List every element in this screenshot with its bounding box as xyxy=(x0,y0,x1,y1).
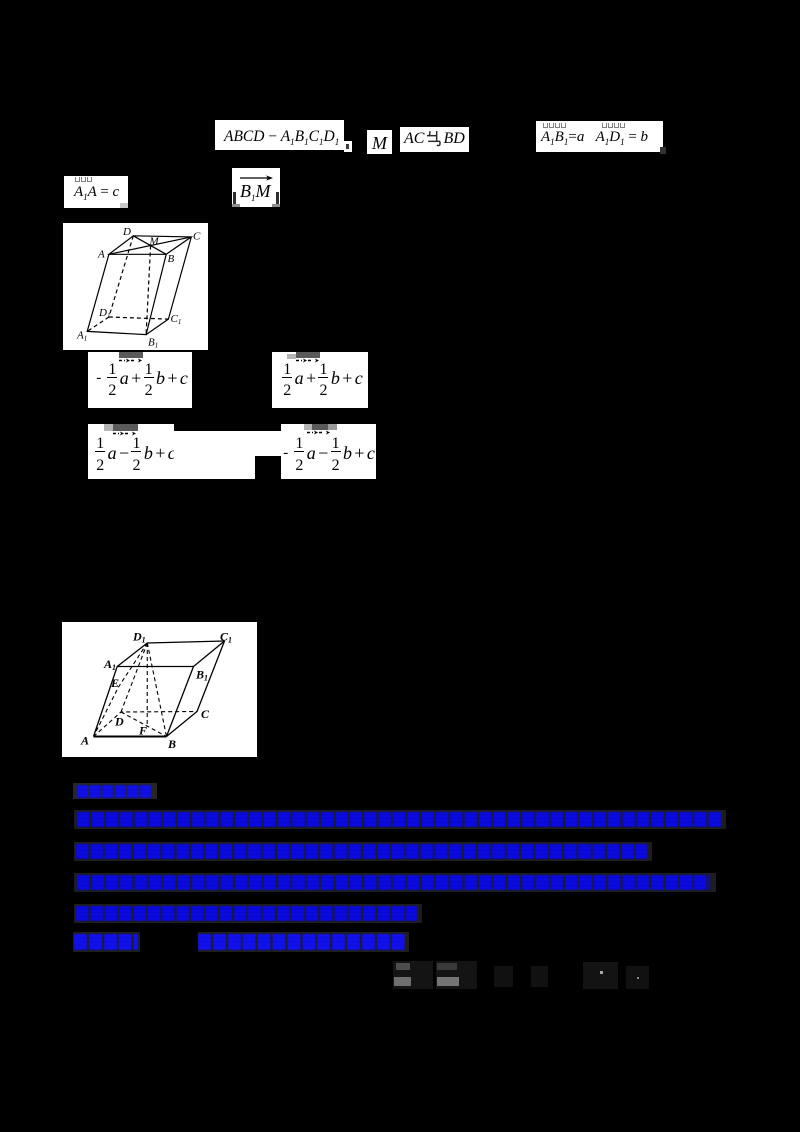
svg-text:B: B xyxy=(168,253,175,265)
option box: 1/2 a + 1/2 b + c xyxy=(272,352,368,408)
svg-text:M: M xyxy=(149,236,160,248)
white strip between option boxes xyxy=(174,431,281,456)
svg-text:B1: B1 xyxy=(148,337,158,350)
formula box: AC yu BD xyxy=(400,127,469,152)
svg-text:D: D xyxy=(122,226,131,238)
svg-text:A: A xyxy=(80,734,89,748)
svg-text:B1: B1 xyxy=(195,668,208,683)
option box: 1/2 a - 1/2 b + c xyxy=(88,424,174,479)
svg-text:C: C xyxy=(193,231,201,243)
svg-text:B: B xyxy=(167,737,176,751)
formula box: A1B1=a, A1D1=b with vector marks xyxy=(536,121,663,152)
figure 2: parallelepiped ABCD-A1B1C1D1 with E and F xyxy=(62,622,257,757)
svg-text:C1: C1 xyxy=(171,313,182,326)
svg-text:E: E xyxy=(110,676,119,690)
option box: -1/2 a - 1/2 b + c xyxy=(281,424,376,479)
formula box: vector B1M xyxy=(232,168,280,207)
svg-text:F: F xyxy=(138,724,147,738)
svg-text:D: D xyxy=(114,715,124,729)
svg-text:C1: C1 xyxy=(220,630,232,645)
figure 1: parallelepiped ABCD-A1B1C1D1 with M xyxy=(63,223,208,350)
svg-text:D1: D1 xyxy=(98,307,110,320)
formula box: ABCD-A1B1C1D1 xyxy=(215,120,344,150)
faint dark equation blocks xyxy=(393,961,433,989)
svg-text:A: A xyxy=(97,249,105,261)
formula box: M xyxy=(367,130,392,154)
svg-text:A1: A1 xyxy=(103,657,116,672)
formula box: A1A=c xyxy=(64,176,128,208)
svg-text:C: C xyxy=(201,707,210,721)
comma tab after box xyxy=(344,141,352,152)
option box: -1/2 a + 1/2 b + c xyxy=(88,352,192,408)
svg-text:A1: A1 xyxy=(76,330,87,343)
svg-text:D1: D1 xyxy=(132,630,146,645)
blue heading bar xyxy=(73,783,157,799)
